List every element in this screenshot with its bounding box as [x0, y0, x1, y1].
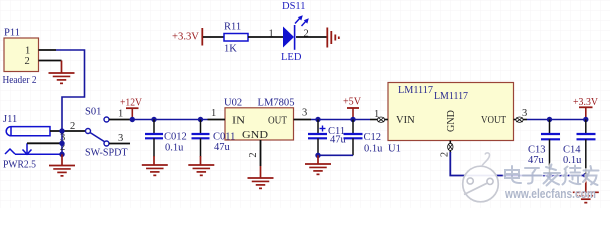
capacitor C12 [344, 120, 384, 156]
switch pin3 stub [109, 143, 130, 145]
svg-text:+5V: +5V [343, 97, 361, 108]
svg-text:IN: IN [232, 116, 245, 127]
power port +3.3V right [573, 97, 598, 120]
svg-text:3: 3 [522, 108, 527, 119]
svg-text:47u: 47u [330, 135, 347, 146]
svg-text:47u: 47u [528, 155, 545, 166]
svg-text:+12V: +12V [120, 98, 142, 109]
wire LED to ground [296, 36, 327, 38]
svg-text:LED: LED [281, 52, 302, 63]
svg-text:C011: C011 [213, 132, 235, 143]
jack pin 1 (tip) wire to switch [50, 130, 86, 132]
svg-text:U02: U02 [224, 98, 242, 109]
power port +5V [343, 97, 361, 119]
connector P11 [3, 28, 39, 87]
svg-text:0.1u: 0.1u [165, 143, 184, 154]
junction at C11 bottom [315, 153, 320, 158]
LED DS11 [281, 1, 309, 63]
svg-text:LM1117: LM1117 [398, 85, 433, 96]
svg-text:LM7805: LM7805 [258, 98, 295, 109]
switch S01 SW-SPDT [70, 107, 128, 159]
junction at jack tip [59, 128, 64, 133]
svg-text:+3.3V: +3.3V [573, 97, 598, 108]
switch pin1 wire [109, 119, 132, 121]
svg-text:C12: C12 [364, 132, 382, 143]
svg-text:www.elecfans.com: www.elecfans.com [504, 187, 596, 201]
svg-text:VOUT: VOUT [481, 115, 506, 126]
U02 pin 2 (GND) [260, 140, 262, 166]
svg-text:U1: U1 [388, 144, 401, 155]
junction C012 [151, 117, 156, 122]
svg-text:J11: J11 [3, 114, 17, 125]
junction C011 [198, 117, 203, 122]
watermark logo circle [463, 153, 499, 202]
capacitor C11 (polarized) [308, 120, 347, 156]
power jack J11 [3, 114, 62, 171]
svg-text:P11: P11 [4, 28, 20, 39]
svg-text:OUT: OUT [268, 116, 288, 127]
resistor R11 [224, 22, 248, 55]
jack vertical bus [61, 131, 63, 154]
capacitor C14 [563, 120, 596, 178]
watermark chinese text underlay [505, 165, 599, 186]
svg-text:R11: R11 [224, 22, 241, 33]
svg-text:0.1u: 0.1u [364, 144, 383, 155]
junction C13 top [547, 117, 552, 122]
svg-text:1K: 1K [224, 44, 237, 55]
svg-text:VIN: VIN [396, 115, 415, 126]
svg-text:2: 2 [440, 152, 451, 157]
power port +3.3V top left [172, 28, 202, 46]
junction jack low [59, 152, 64, 157]
ground for C14 [573, 177, 599, 203]
wire P11 pin1 to jack node [56, 50, 85, 131]
svg-text:C14: C14 [563, 145, 581, 156]
ground for C012 [142, 156, 168, 175]
svg-text:PWR2.5: PWR2.5 [3, 160, 36, 171]
svg-text:Header 2: Header 2 [3, 75, 37, 86]
+3.3V output wire [527, 119, 586, 121]
junction C14 bottom [583, 173, 588, 178]
svg-text:3: 3 [118, 133, 123, 144]
svg-text:LM1117: LM1117 [434, 91, 468, 102]
wire U1 pin2 down and right [450, 152, 586, 176]
regulator U1 LM1117 [374, 83, 527, 158]
ground for jack [49, 154, 75, 176]
svg-text:S01: S01 [85, 107, 101, 118]
U1 pin 2 with marker [448, 141, 453, 154]
svg-text:47u: 47u [214, 142, 231, 153]
U02 pin 3 stub [294, 119, 312, 121]
power port +12V [120, 98, 142, 119]
regulator U02 LM7805 [211, 98, 307, 158]
svg-text:2: 2 [25, 56, 30, 67]
capacitor C13 [528, 120, 560, 176]
svg-text:2: 2 [70, 121, 75, 132]
svg-text:1: 1 [269, 29, 274, 40]
junction C13 bottom [547, 173, 552, 178]
pin 1 of P11 [39, 49, 57, 51]
svg-text:DS11: DS11 [282, 1, 306, 12]
junction at +12V [130, 117, 135, 122]
jack pin 3 line [27, 142, 62, 144]
svg-text:3: 3 [302, 108, 307, 119]
U02 pin 1 stub [208, 119, 226, 121]
ground for P11 pin 2 [49, 61, 75, 84]
capacitor C011 [192, 120, 210, 157]
svg-text:C012: C012 [164, 132, 187, 143]
svg-text:1: 1 [118, 109, 123, 120]
junction jack mid [59, 141, 64, 146]
wire +3.3V to R11 [203, 36, 224, 38]
svg-text:1: 1 [25, 46, 30, 57]
+5V rail wire [311, 119, 370, 121]
main +12V rail wire [132, 119, 208, 121]
U1 pin 1 with marker [370, 117, 388, 122]
ground for C11/C12 [305, 155, 331, 174]
svg-text:+3.3V: +3.3V [172, 32, 199, 43]
pin 2 of P11 [39, 60, 62, 62]
junction C14 top [583, 117, 588, 122]
svg-text:2: 2 [248, 152, 259, 157]
wire R11 to LED [248, 36, 283, 38]
ground rotated for LED [327, 28, 339, 48]
svg-text:SW-SPDT: SW-SPDT [85, 148, 128, 159]
bottom wire C11-C12 [318, 154, 353, 156]
svg-text:C13: C13 [528, 145, 546, 156]
svg-text:1: 1 [211, 108, 216, 119]
svg-text:1: 1 [374, 109, 379, 120]
ground for U02 [248, 166, 274, 188]
capacitor C012 [145, 120, 187, 157]
svg-text:GND: GND [446, 110, 457, 132]
watermark chinese text [505, 165, 599, 186]
ground for C011 [188, 156, 214, 175]
svg-text:GND: GND [242, 130, 268, 141]
svg-text:0.1u: 0.1u [563, 155, 582, 166]
U1 pin 3 with marker [514, 117, 528, 122]
junction C11 [315, 117, 320, 122]
junction C12 / +5V [350, 117, 355, 122]
